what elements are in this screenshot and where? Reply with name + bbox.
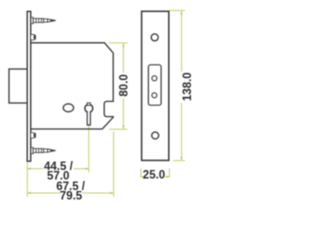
svg-text:80.0: 80.0 xyxy=(119,74,131,96)
svg-text:79.5: 79.5 xyxy=(60,191,83,203)
svg-text:138.0: 138.0 xyxy=(182,72,194,101)
svg-text:25.0: 25.0 xyxy=(143,170,165,182)
